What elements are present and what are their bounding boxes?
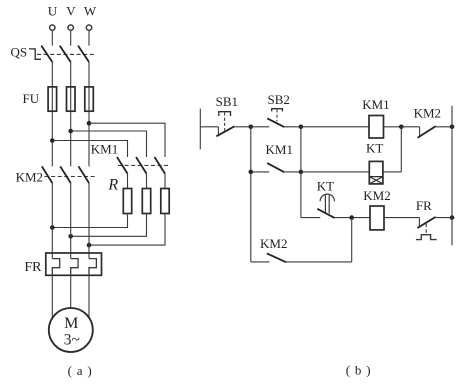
wire FR to motor lead3 — [88, 275, 90, 319]
wire node A to KM1 contact — [251, 171, 269, 173]
wire node D to KM2 contact — [401, 126, 419, 128]
relay FR heater pole1 — [52, 259, 59, 276]
column B (rung1 down to rung3) — [300, 127, 302, 218]
contact KT delay arc — [320, 194, 334, 201]
node phase2 branch — [68, 129, 73, 134]
wire KM2 contact to right rail — [436, 126, 452, 128]
svg-text:KM2: KM2 — [414, 106, 441, 121]
contactor KM2 blade pole2 (a) — [60, 166, 70, 183]
wire SB2 to node B — [284, 126, 301, 128]
svg-text:KM2: KM2 — [260, 236, 287, 251]
wire coil KM1 to node D — [384, 126, 402, 128]
wire branch L3 — [89, 123, 165, 157]
node A rung2 — [249, 170, 254, 175]
wire KM2 contact rung4 to column C — [286, 261, 352, 263]
relay FR heater pole2 — [71, 259, 78, 276]
relay FR box — [46, 253, 102, 275]
svg-text:FR: FR — [24, 260, 42, 275]
wire R1 return — [52, 214, 127, 228]
button SB2 plunger dashed — [276, 110, 278, 122]
column C (rung3 to rung4) — [351, 218, 353, 262]
switch QS blade pole3 — [78, 46, 89, 62]
wire SB1 to node A — [234, 126, 250, 128]
button SB2 cap — [272, 109, 283, 112]
svg-text:KM1: KM1 — [266, 142, 293, 157]
wire coil KM2 to FR contact — [384, 217, 419, 219]
node B rung1 — [299, 125, 304, 130]
wire KM1 to R pole1 — [127, 174, 129, 189]
contact KT delay lines — [325, 195, 329, 213]
svg-text:V: V — [66, 4, 76, 19]
contact FR blade NC — [417, 217, 435, 228]
svg-text:KT: KT — [366, 141, 383, 156]
wire phase2 KM2 to FR — [70, 183, 72, 259]
wire FR to motor lead1 — [51, 275, 53, 319]
relay FR heater pole3 — [89, 259, 96, 276]
column A (rung1 to rung4) — [250, 127, 252, 262]
svg-text:KM2: KM2 — [363, 188, 390, 203]
wire phase3 FU to KM2 — [88, 111, 90, 166]
wire phase1 FU to KM2 — [51, 111, 53, 166]
wire branch L2 — [71, 131, 147, 157]
svg-text:M: M — [64, 315, 78, 332]
contactor KM2 linkage dashed (a) — [45, 176, 97, 178]
wire phase3 top — [88, 30, 90, 45]
button SB1 fixed contact tick — [217, 127, 219, 136]
coil KT divider and X — [369, 177, 383, 184]
wire phase2 top — [70, 30, 72, 45]
wire node A column to KM2 contact rung4 — [251, 261, 270, 263]
node B rung2 — [299, 170, 304, 175]
wire phase3 KM2 to FR — [88, 183, 90, 259]
svg-text:SB1: SB1 — [216, 94, 238, 109]
wire KM1 contact to node B rung2 — [284, 171, 301, 173]
node R2 to phase2 — [68, 234, 73, 239]
wire phase1 QS to FU — [51, 62, 53, 87]
contact KT blade NO (rung3) — [317, 209, 334, 218]
contact KM2 fixed tick (rung1) — [419, 127, 421, 137]
svg-text:SB2: SB2 — [268, 92, 290, 107]
terminal W — [86, 25, 91, 30]
wire branch L1 — [52, 141, 127, 158]
svg-text:FR: FR — [416, 198, 432, 213]
contact FR pulse symbol — [416, 235, 437, 240]
node phase1 branch — [50, 138, 55, 143]
coil KM1 — [369, 116, 384, 139]
coil KT body — [369, 161, 383, 184]
wire rail to SB1 — [200, 126, 218, 128]
node R3 to phase3 — [87, 243, 92, 248]
resistor R pole2 — [142, 189, 150, 214]
wire phase1 top — [51, 30, 53, 45]
node C rung3 — [349, 215, 354, 220]
terminal V — [68, 25, 73, 30]
svg-text:QS: QS — [11, 45, 28, 60]
contactor KM1 blade pole1 (a) — [117, 157, 128, 174]
motor M circle — [49, 308, 93, 352]
wire phase3 QS to FU — [88, 62, 90, 87]
wire node A to SB2 — [251, 126, 269, 128]
wire KM1 to R pole3 — [164, 174, 166, 189]
svg-text:W: W — [84, 4, 97, 19]
switch QS handle — [29, 49, 41, 59]
button SB1 plunger dashed — [224, 113, 226, 131]
contactor KM1 blade pole2 (a) — [136, 157, 147, 174]
wire node B to coil KT — [301, 171, 369, 173]
wire phase2 QS to FU — [70, 62, 72, 87]
svg-text:KM1: KM1 — [362, 97, 389, 112]
svg-text:U: U — [48, 4, 58, 19]
contactor KM1 blade pole3 (a) — [155, 157, 166, 174]
svg-text:KM1: KM1 — [91, 142, 118, 157]
switch QS blade pole1 — [41, 46, 52, 62]
wire R2 return — [71, 214, 147, 237]
wire KT contact to coil KM2 — [335, 217, 370, 219]
fuse FU pole1 — [48, 87, 57, 111]
left supply rail (b) — [199, 109, 201, 150]
svg-text:( b ): ( b ) — [346, 362, 372, 377]
wire KM1 to R pole2 — [146, 174, 148, 189]
wire column B corner to KT contact — [301, 217, 320, 219]
contact KM2 blade NO (rung4) — [267, 253, 286, 262]
resistor R pole3 — [161, 189, 169, 214]
right supply rail (b) — [451, 106, 453, 246]
wire node B to coil KM1 — [301, 126, 369, 128]
svg-text:KM2: KM2 — [16, 169, 43, 184]
button SB2 blade (NO) — [267, 118, 284, 127]
switch QS linkage dashed — [37, 53, 96, 55]
svg-text:3~: 3~ — [64, 332, 80, 349]
button SB1 blade (NC) — [216, 126, 234, 136]
wire FR to motor lead2 — [70, 275, 72, 308]
contact FR fixed tick — [418, 218, 420, 228]
contact FR linkage dashed — [425, 224, 427, 235]
svg-text:FU: FU — [23, 91, 40, 106]
switch QS blade pole2 — [60, 46, 71, 62]
node A rung1 — [249, 125, 254, 130]
wire coil KT to column D — [383, 171, 401, 173]
contactor KM1 linkage dashed (a) — [118, 164, 168, 166]
fuse FU pole3 — [85, 87, 94, 111]
node R1 to phase1 — [50, 225, 55, 230]
wire phase2 FU to KM2 — [70, 111, 72, 166]
coil KM2 — [370, 206, 384, 230]
contactor KM2 blade pole1 (a) — [42, 166, 53, 183]
svg-text:KT: KT — [317, 178, 334, 193]
svg-text:R: R — [107, 177, 118, 194]
wire FR contact to right rail — [436, 217, 452, 219]
button SB1 cap — [219, 112, 231, 116]
node phase3 branch — [87, 121, 92, 126]
wire phase1 KM2 to FR — [51, 183, 53, 259]
svg-text:( a ): ( a ) — [68, 363, 93, 378]
contact KM1 blade NO (rung2) — [267, 163, 284, 172]
contact KM2 blade NC (rung1) — [418, 126, 436, 138]
node right rail rung1 — [450, 125, 455, 130]
node right rail rung3 — [450, 215, 455, 220]
wire R3 return — [89, 214, 165, 246]
terminal U — [50, 25, 55, 30]
fuse FU pole2 — [67, 87, 76, 111]
resistor R pole1 — [123, 189, 131, 214]
node D rung1 — [399, 125, 404, 130]
contactor KM2 blade pole3 (a) — [79, 166, 90, 183]
column D (rung2 up to rung1) — [400, 127, 402, 172]
